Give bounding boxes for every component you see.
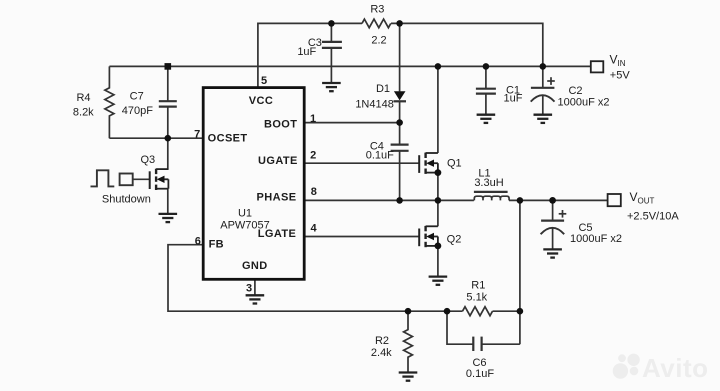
capacitor C6 branch: [447, 311, 520, 351]
svg-text:0.1uF: 0.1uF: [366, 149, 394, 161]
wire OCSET pin7: [109, 137, 203, 139]
node R2 top: [405, 308, 412, 315]
svg-text:C7: C7: [130, 91, 144, 103]
pulse waveform symbol: [91, 170, 115, 186]
svg-text:PHASE: PHASE: [257, 192, 297, 204]
svg-text:R2: R2: [375, 335, 389, 347]
svg-text:8.2k: 8.2k: [73, 107, 94, 119]
resistor R2: [404, 311, 413, 372]
node C7 top square junction: [165, 63, 172, 70]
diode D1: [394, 23, 407, 122]
wire output rail to VOUT: [509, 199, 608, 201]
capacitor C2 electrolytic: [531, 66, 555, 114]
node C2 on VIN rail: [540, 63, 547, 70]
ground for Q3: [159, 214, 178, 222]
terminal VOUT box: [608, 194, 621, 206]
inductor L1: [474, 192, 509, 201]
ground for C3: [322, 83, 341, 91]
svg-text:8: 8: [311, 186, 317, 198]
node C1 on VIN rail: [483, 63, 490, 70]
watermark avito logo circles: [613, 354, 640, 379]
svg-text:1000uF x2: 1000uF x2: [570, 233, 622, 245]
capacitor C4: [391, 123, 409, 201]
svg-text:5: 5: [261, 75, 267, 87]
svg-text:6: 6: [195, 236, 201, 248]
op-amp U1 APW7057 IC body: [203, 88, 304, 280]
svg-text:R4: R4: [76, 92, 90, 104]
svg-text:VCC: VCC: [249, 95, 273, 107]
capacitor C5 electrolytic: [541, 200, 565, 249]
wire top rail right to corner down to VIN rail: [391, 23, 543, 66]
svg-text:U1: U1: [238, 208, 252, 220]
svg-text:2.2: 2.2: [371, 35, 386, 47]
transistor Q2: [419, 226, 438, 247]
svg-text:7: 7: [194, 128, 200, 140]
resistor R1: [463, 307, 493, 316]
node C5 on output rail: [549, 197, 556, 204]
wire FB pin6 down and along bottom: [168, 245, 463, 312]
svg-text:1: 1: [310, 113, 316, 125]
svg-text:3.3uH: 3.3uH: [474, 177, 503, 189]
svg-text:Q3: Q3: [140, 154, 155, 166]
shutdown input box: [120, 174, 133, 186]
wire R1 right to output branch: [493, 310, 520, 312]
svg-text:Q2: Q2: [447, 234, 462, 246]
svg-text:OCSET: OCSET: [208, 133, 248, 145]
node C7 bottom OCSET: [165, 135, 172, 142]
svg-text:3: 3: [246, 282, 252, 294]
node output branch: [517, 197, 524, 204]
node Q1 drain on VIN rail: [435, 63, 442, 70]
ground for C2: [534, 115, 553, 123]
IC GND pin3 stub: [254, 279, 256, 295]
node Q2 source body: [435, 243, 442, 250]
svg-text:0.1uF: 0.1uF: [466, 368, 494, 380]
svg-text:Shutdown: Shutdown: [102, 193, 151, 205]
svg-text:1000uF x2: 1000uF x2: [558, 97, 610, 109]
svg-text:R3: R3: [370, 3, 384, 15]
node R1 right: [517, 308, 524, 315]
svg-text:APW7057: APW7057: [220, 220, 270, 232]
transistor Q2 drain from phase rail: [437, 200, 439, 226]
wire box to Q3 gate: [133, 178, 150, 180]
capacitor C1: [476, 66, 496, 114]
wire PHASE pin8 rail: [304, 199, 474, 201]
ground for IC pin3: [246, 295, 265, 303]
svg-text:Q1: Q1: [447, 158, 462, 170]
node Q1 source body: [435, 169, 442, 176]
node BOOT/D1/C4: [396, 119, 403, 126]
resistor R3: [362, 19, 391, 28]
transistor Q3 drain wire: [167, 138, 169, 170]
svg-text:D1: D1: [376, 83, 390, 95]
node Q1 source on phase rail: [435, 197, 442, 204]
node R3/D1: [396, 20, 403, 27]
wire LGATE pin4: [304, 236, 419, 238]
wire BOOT pin1: [304, 122, 399, 124]
svg-text:BOOT: BOOT: [264, 119, 297, 131]
plus sign C2: [547, 77, 555, 85]
svg-text:1N4148: 1N4148: [355, 99, 394, 111]
ground for R2: [399, 373, 418, 381]
capacitor C7: [159, 66, 177, 138]
transistor Q3: [150, 169, 169, 190]
wire output branch down to feedback: [519, 200, 521, 344]
svg-text:UGATE: UGATE: [258, 155, 298, 167]
wire VIN rail y=66.4: [109, 65, 590, 67]
svg-text:GND: GND: [242, 260, 268, 272]
terminal VIN box: [591, 61, 604, 72]
svg-text:1uF: 1uF: [504, 93, 523, 105]
svg-text:Avito: Avito: [642, 353, 709, 383]
transistor Q2 source to ground: [437, 246, 439, 277]
wire top rail y=23 from VCC corner to R3 left: [258, 23, 362, 87]
svg-text:R1: R1: [471, 280, 485, 292]
plus sign C5: [559, 210, 567, 218]
ground for C1: [477, 115, 496, 123]
svg-text:FB: FB: [209, 239, 224, 251]
resistor R4: [105, 66, 114, 138]
ground for Q2: [429, 277, 448, 285]
svg-text:+5V: +5V: [610, 69, 631, 81]
transistor Q3 source wire to ground: [167, 189, 169, 214]
svg-text:+2.5V/10A: +2.5V/10A: [627, 210, 679, 222]
ground for C5: [543, 249, 562, 257]
svg-text:5.1k: 5.1k: [466, 291, 487, 303]
wire UGATE pin2: [304, 162, 419, 164]
svg-text:470pF: 470pF: [122, 105, 153, 117]
transistor Q1: [419, 153, 438, 174]
capacitor C3: [322, 23, 342, 83]
node C4 on phase rail: [396, 197, 403, 204]
node C3 top: [328, 20, 335, 27]
transistor Q1 drain from VIN rail: [437, 66, 439, 153]
svg-text:4: 4: [310, 223, 317, 235]
node R1 left C6: [444, 308, 451, 315]
svg-text:1uF: 1uF: [297, 46, 316, 58]
svg-text:C2: C2: [568, 85, 582, 97]
svg-text:2.4k: 2.4k: [371, 347, 392, 359]
svg-text:2: 2: [310, 150, 316, 162]
transistor Q1 source to phase rail: [437, 173, 439, 201]
